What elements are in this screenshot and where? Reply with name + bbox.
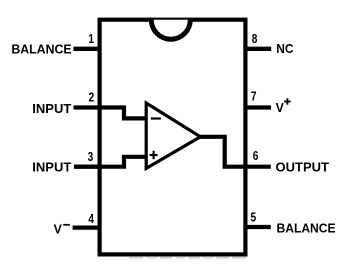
svg-text:V: V <box>276 101 285 115</box>
svg-text:V: V <box>54 222 63 236</box>
svg-text:5: 5 <box>251 210 257 224</box>
svg-text:2: 2 <box>89 90 95 104</box>
svg-text:INPUT: INPUT <box>32 101 71 116</box>
svg-text:6: 6 <box>253 149 259 163</box>
svg-text:BALANCE: BALANCE <box>277 221 336 235</box>
svg-text:INPUT: INPUT <box>32 160 71 175</box>
svg-text:8: 8 <box>252 32 258 46</box>
svg-text:3: 3 <box>88 150 94 164</box>
svg-text:BALANCE: BALANCE <box>11 42 71 56</box>
svg-text:4: 4 <box>88 212 94 226</box>
svg-text:NC: NC <box>276 42 293 57</box>
svg-text:1: 1 <box>88 32 94 46</box>
svg-text:7: 7 <box>251 89 257 103</box>
svg-text:OUTPUT: OUTPUT <box>276 159 330 174</box>
